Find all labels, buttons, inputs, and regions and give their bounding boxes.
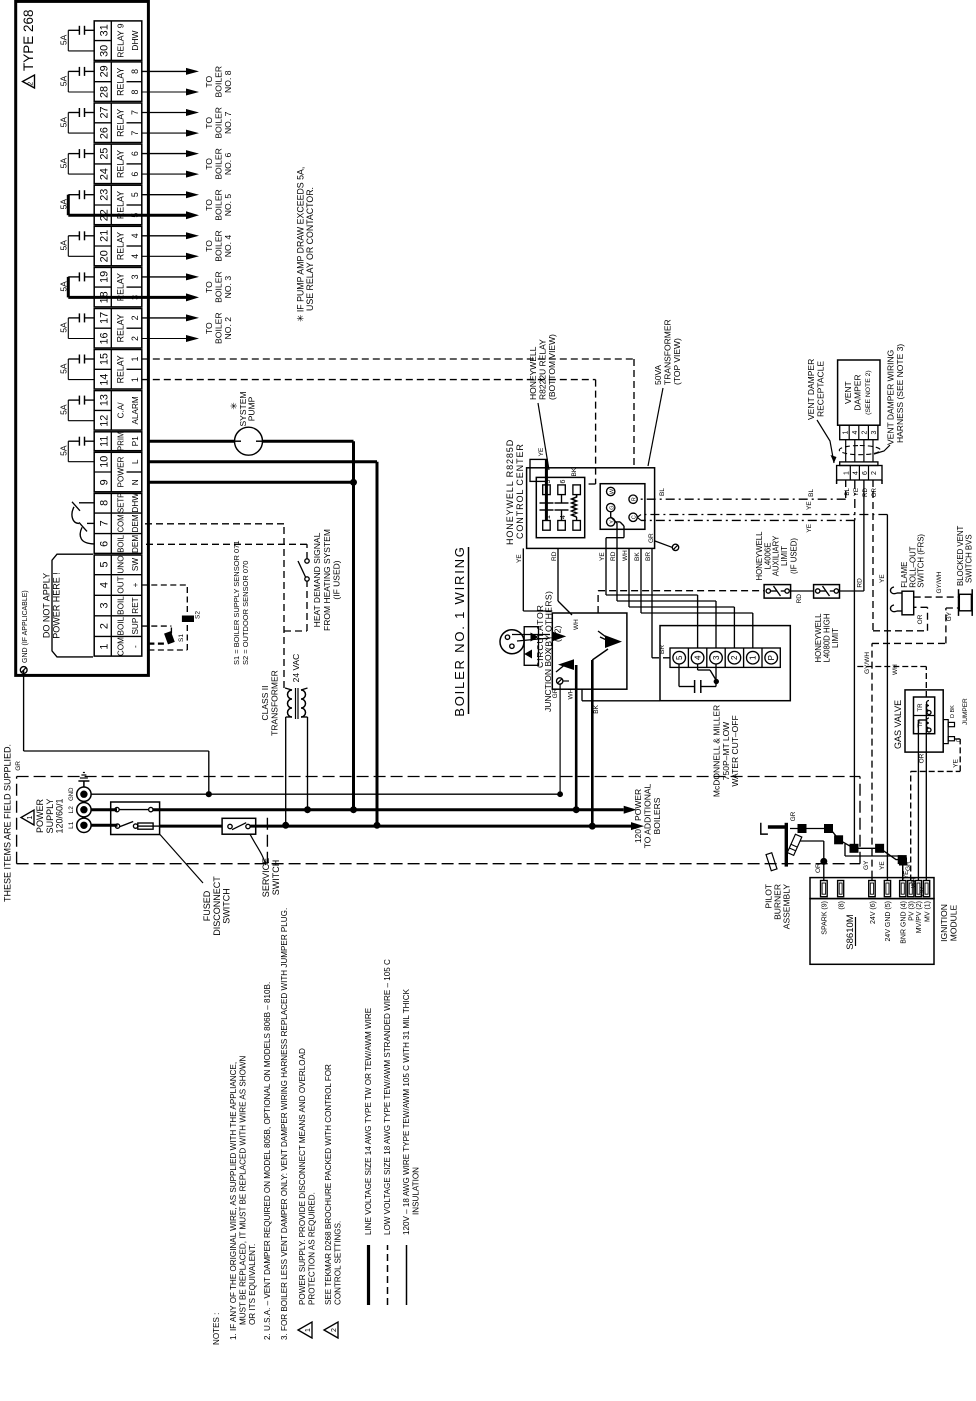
svg-text:OR ITS EQUIVALENT.: OR ITS EQUIVALENT. bbox=[248, 1244, 257, 1325]
wire N from terminal 9 bbox=[148, 481, 353, 484]
svg-text:2: 2 bbox=[27, 82, 34, 86]
svg-text:29: 29 bbox=[98, 65, 110, 77]
terminal group 16-17 bbox=[94, 309, 142, 349]
wire L1 rail continues bbox=[160, 825, 223, 828]
wire WH MV/PV to TH coil bbox=[917, 720, 919, 881]
svg-text:4: 4 bbox=[693, 655, 702, 660]
fuse 5A terminals 28-29 bbox=[59, 67, 95, 92]
svg-text:POWER: POWER bbox=[117, 456, 126, 487]
sensor S1 bbox=[165, 632, 174, 644]
svg-text:NO. 6: NO. 6 bbox=[223, 152, 233, 175]
svg-text:DO NOT APPLY: DO NOT APPLY bbox=[42, 573, 52, 638]
svg-text:DAMPER: DAMPER bbox=[853, 374, 863, 410]
Honeywell L4006E auxiliary limit bbox=[764, 585, 791, 599]
svg-text:YE: YE bbox=[538, 447, 545, 456]
wire dashed into aux limit bbox=[597, 591, 599, 613]
svg-text:COM: COM bbox=[117, 637, 126, 656]
power supply L1 terminal bbox=[77, 818, 91, 832]
module slot PV (3) bbox=[908, 881, 914, 897]
wire 24VAC tap to heat demand switch bbox=[284, 630, 307, 632]
wire L1 rail bbox=[91, 824, 117, 827]
svg-text:TO: TO bbox=[204, 240, 214, 252]
svg-text:RD: RD bbox=[862, 487, 869, 496]
svg-text:(BOTTOM VIEW): (BOTTOM VIEW) bbox=[547, 334, 557, 400]
pilot burner assembly bbox=[785, 823, 788, 867]
svg-text:TO: TO bbox=[204, 117, 214, 129]
svg-text:RD: RD bbox=[551, 551, 558, 561]
power supply L2 terminal bbox=[77, 803, 91, 817]
svg-text:BNR GND (4): BNR GND (4) bbox=[901, 901, 908, 944]
terminal group 26-27 bbox=[94, 103, 142, 143]
svg-text:7: 7 bbox=[130, 110, 140, 115]
svg-text:GND (IF APPLICABLE): GND (IF APPLICABLE) bbox=[22, 590, 29, 663]
svg-text:YE: YE bbox=[599, 552, 606, 561]
svg-text:31: 31 bbox=[98, 24, 110, 36]
svg-text:TO ADDITIONAL: TO ADDITIONAL bbox=[643, 783, 653, 848]
svg-text:(IF USED): (IF USED) bbox=[790, 538, 799, 574]
wire RD high limit to receptacle 6 bbox=[840, 590, 864, 592]
svg-text:RELAY: RELAY bbox=[116, 314, 126, 342]
wire to boiler no. 2 (terminal 16) bbox=[142, 338, 186, 340]
fuse 5A terminals 10-11 bbox=[59, 437, 95, 462]
svg-text:8: 8 bbox=[130, 69, 140, 74]
svg-text:SWITCH (FRS): SWITCH (FRS) bbox=[917, 534, 926, 588]
svg-text:NO. 7: NO. 7 bbox=[223, 111, 233, 134]
fuse 5A terminals 16-17 bbox=[59, 313, 95, 338]
svg-text:ALARM: ALARM bbox=[131, 396, 140, 424]
note triangle 2 bbox=[324, 1322, 338, 1338]
R8222U coil bbox=[576, 517, 578, 521]
note triangle 1 bbox=[298, 1322, 312, 1338]
svg-text:21: 21 bbox=[98, 230, 110, 242]
svg-text:3. FOR BOILER LESS VENT DAMPER: 3. FOR BOILER LESS VENT DAMPER ONLY: VEN… bbox=[280, 908, 289, 1340]
R8222U terminal (coil left) bbox=[573, 521, 581, 531]
fuse 5A terminals 22-23 bbox=[59, 190, 95, 215]
svg-text:OR: OR bbox=[917, 614, 924, 624]
svg-text:PV (3): PV (3) bbox=[909, 901, 916, 921]
svg-text:27: 27 bbox=[98, 106, 110, 118]
svg-text:5A: 5A bbox=[59, 281, 69, 292]
heat demand switch bbox=[305, 577, 309, 581]
svg-text:BOILER: BOILER bbox=[214, 107, 224, 139]
svg-text:BOILER: BOILER bbox=[214, 189, 224, 221]
jumper terminal 6 to 7 with break bbox=[80, 527, 94, 544]
svg-text:GAS VALVE: GAS VALVE bbox=[893, 700, 903, 749]
junction box bbox=[552, 613, 627, 689]
svg-text:YE: YE bbox=[903, 871, 910, 879]
wire GND rail bbox=[91, 793, 560, 795]
svg-text:YE: YE bbox=[806, 501, 813, 510]
water cutoff terminal P bbox=[761, 648, 763, 667]
svg-text:+: + bbox=[131, 582, 140, 587]
wire to boiler no. 7 (terminal 26) bbox=[142, 132, 186, 134]
svg-text:NO. 4: NO. 4 bbox=[223, 235, 233, 258]
water cutoff terminal 3 bbox=[706, 648, 708, 667]
jumper terminal 7 to 8 with break bbox=[72, 507, 79, 524]
Honeywell R8285D control center box bbox=[527, 468, 655, 549]
svg-text:HEAT DEMAND SIGNAL: HEAT DEMAND SIGNAL bbox=[312, 532, 322, 627]
sensor S2 bbox=[182, 616, 193, 622]
svg-text:3: 3 bbox=[98, 602, 110, 608]
svg-text:RET: RET bbox=[131, 597, 140, 613]
bracket DO NOT APPLY POWER HERE over terminals 1-5 bbox=[52, 554, 93, 657]
svg-text:5: 5 bbox=[98, 561, 110, 567]
water cutoff terminal row bbox=[670, 648, 780, 667]
svg-text:CLASS II: CLASS II bbox=[260, 686, 270, 721]
flame roll-out switch FRS bbox=[902, 591, 914, 615]
terminal group 1-5 bbox=[94, 555, 142, 656]
receptacle terminal 2 bbox=[868, 466, 870, 481]
wire L from terminal 10 bbox=[148, 460, 377, 463]
svg-text:VENT: VENT bbox=[843, 381, 853, 404]
svg-text:3: 3 bbox=[871, 430, 878, 434]
svg-text:YE: YE bbox=[879, 861, 886, 870]
svg-text:4: 4 bbox=[130, 254, 140, 259]
svg-text:RD: RD bbox=[856, 578, 863, 588]
svg-text:RELAY: RELAY bbox=[116, 109, 126, 137]
svg-text:1: 1 bbox=[27, 815, 34, 819]
fuse 5A terminals 26-27 bbox=[59, 108, 95, 133]
terminal group 14-15 bbox=[94, 350, 142, 390]
svg-text:20: 20 bbox=[98, 250, 110, 262]
svg-text:16: 16 bbox=[98, 332, 110, 344]
wire YE 24V GND to transformer C bbox=[886, 515, 888, 881]
svg-text:120V – 18 AWG WIRE TYPE TEW/AW: 120V – 18 AWG WIRE TYPE TEW/AWM 105 C WI… bbox=[402, 988, 411, 1235]
wire to boiler no. 5 (terminal 23) bbox=[142, 194, 186, 196]
svg-text:SETP: SETP bbox=[117, 493, 126, 513]
svg-text:(8): (8) bbox=[839, 901, 846, 910]
svg-text:BL: BL bbox=[808, 488, 815, 496]
svg-text:LIMIT: LIMIT bbox=[780, 546, 789, 566]
GR screw at control center bbox=[672, 544, 678, 550]
ignition module box bbox=[810, 899, 934, 965]
junction box GR screw bbox=[557, 678, 563, 684]
svg-text:WH: WH bbox=[573, 619, 580, 630]
svg-text:1: 1 bbox=[130, 356, 140, 361]
wire to boiler no. 3 (terminal 19) bbox=[142, 276, 186, 278]
svg-text:L1: L1 bbox=[68, 821, 75, 829]
svg-text:5A: 5A bbox=[59, 445, 69, 456]
svg-text:6: 6 bbox=[560, 480, 567, 484]
wire GY/WH FRS to BVS bbox=[914, 596, 960, 598]
svg-text:10: 10 bbox=[98, 456, 110, 468]
field supplied dashed boundary bbox=[16, 777, 18, 864]
svg-text:TR: TR bbox=[917, 703, 924, 712]
svg-text:1: 1 bbox=[98, 644, 110, 650]
bundle arrow up bbox=[558, 659, 574, 670]
wire YE transformer C to ignition module bbox=[641, 514, 887, 516]
wire sensor dashed terminal 4 bbox=[142, 584, 188, 586]
wire OR spark to pilot bbox=[823, 841, 825, 881]
wire to boiler no. 4 (terminal 20) bbox=[142, 255, 186, 257]
svg-text:WH: WH bbox=[622, 550, 629, 561]
receptacle terminal 4 bbox=[849, 466, 851, 481]
svg-text:2: 2 bbox=[130, 315, 140, 320]
svg-text:BOIL: BOIL bbox=[117, 534, 126, 552]
svg-text:NOTES :: NOTES : bbox=[212, 1313, 221, 1345]
svg-text:WH: WH bbox=[911, 878, 918, 888]
svg-text:GY/WH: GY/WH bbox=[864, 652, 871, 674]
gas valve inner box bbox=[914, 697, 935, 734]
svg-text:2: 2 bbox=[98, 623, 110, 629]
YE heavy wire into control center bbox=[545, 459, 548, 520]
label SERVICE SWITCH bbox=[250, 834, 266, 865]
svg-text:GR: GR bbox=[648, 533, 655, 543]
svg-text:JUMPER: JUMPER bbox=[962, 698, 969, 725]
vent damper receptacle bbox=[837, 466, 882, 481]
svg-text:RELAY: RELAY bbox=[116, 355, 126, 383]
svg-text:5A: 5A bbox=[59, 363, 69, 374]
vent damper box bbox=[838, 360, 880, 425]
water cutoff terminal 5 bbox=[673, 651, 686, 664]
svg-text:PRIM: PRIM bbox=[117, 431, 126, 451]
svg-text:OR: OR bbox=[815, 863, 822, 873]
svg-text:2: 2 bbox=[730, 655, 739, 660]
svg-text:YE: YE bbox=[516, 554, 523, 563]
module slot MV/PV (2) bbox=[915, 881, 921, 897]
terminal group 20-21 bbox=[94, 226, 142, 266]
vent damper terminal strip bbox=[840, 425, 878, 440]
svg-text:24: 24 bbox=[98, 168, 110, 180]
pilot spark OR wire with bead bbox=[800, 840, 824, 842]
svg-text:7: 7 bbox=[98, 520, 110, 526]
water cutoff terminal 4 bbox=[687, 648, 689, 667]
wire BR to water cutoff terminal 5 bbox=[652, 657, 670, 659]
wire to boiler no. 6 (terminal 24) bbox=[142, 173, 186, 175]
svg-text:UNO: UNO bbox=[117, 555, 126, 573]
svg-text:RELAY: RELAY bbox=[116, 232, 126, 260]
transformer terminal G bbox=[607, 503, 615, 511]
svg-text:6: 6 bbox=[130, 151, 140, 156]
wire GR BNR GND to pilot bbox=[902, 856, 904, 881]
svg-text:IGNITION: IGNITION bbox=[939, 904, 949, 942]
wire sensor S1 loop bbox=[142, 625, 172, 627]
svg-text:BOILER: BOILER bbox=[214, 271, 224, 303]
svg-text:GY: GY bbox=[863, 860, 870, 870]
svg-text:23: 23 bbox=[98, 189, 110, 201]
wire BK from L1 rail to junction box bbox=[591, 660, 594, 826]
svg-text:RELAY 9: RELAY 9 bbox=[116, 23, 126, 57]
svg-text:1: 1 bbox=[130, 377, 140, 382]
R8222U terminal 3 bbox=[543, 485, 551, 495]
wire RD to junction bundle bbox=[557, 548, 559, 601]
wire BK to water cutoff terminal 1 bbox=[640, 548, 642, 613]
svg-text:✳ IF PUMP AMP DRAW EXCEEDS 5A,: ✳ IF PUMP AMP DRAW EXCEEDS 5A, bbox=[296, 167, 306, 322]
svg-text:1: 1 bbox=[842, 430, 849, 434]
module slot (8) bbox=[838, 881, 844, 897]
svg-text:(SEE NOTE 2): (SEE NOTE 2) bbox=[865, 370, 872, 415]
wire RD to water cutoff terminal 3 bbox=[611, 517, 617, 523]
svg-text:OR: OR bbox=[919, 886, 926, 896]
Honeywell L4080D high limit bbox=[814, 585, 840, 599]
svg-text:8: 8 bbox=[98, 500, 110, 506]
svg-text:D BK: D BK bbox=[950, 705, 956, 718]
terminal group 30-31 bbox=[94, 21, 142, 61]
svg-text:VENT DAMPER WIRING: VENT DAMPER WIRING bbox=[886, 350, 896, 445]
water cutoff terminal 1 bbox=[743, 648, 745, 667]
svg-text:YE: YE bbox=[853, 488, 860, 496]
svg-text:C.A/: C.A/ bbox=[117, 402, 126, 419]
svg-text:PROTECTION AS REQUIRED.: PROTECTION AS REQUIRED. bbox=[308, 1192, 317, 1305]
svg-text:DEM: DEM bbox=[131, 535, 140, 553]
legend line voltage bbox=[367, 1245, 370, 1305]
wire to boiler no. 8 (terminal 28) bbox=[142, 91, 186, 93]
svg-text:6: 6 bbox=[98, 541, 110, 547]
R8222U terminal 6 bbox=[558, 485, 566, 495]
svg-text:4: 4 bbox=[853, 471, 860, 475]
terminal group 22-23 bbox=[94, 185, 142, 225]
svg-text:OUT: OUT bbox=[117, 576, 126, 593]
gas valve TR coil bbox=[927, 711, 931, 715]
terminal group 11-11 bbox=[94, 432, 142, 451]
svg-text:P: P bbox=[767, 655, 776, 660]
blocked vent switch BVS bbox=[959, 594, 971, 611]
terminal group 24-25 bbox=[94, 144, 142, 184]
wire YE receptacle to transformer C bbox=[854, 480, 856, 520]
svg-text:USE RELAY OR CONTACTOR.: USE RELAY OR CONTACTOR. bbox=[305, 187, 315, 311]
transformer Y G leads bbox=[615, 521, 620, 523]
svg-text:24V (6): 24V (6) bbox=[870, 901, 877, 924]
svg-text:9: 9 bbox=[98, 479, 110, 485]
svg-text:R8222U RELAY: R8222U RELAY bbox=[538, 339, 548, 400]
svg-text:NO. 3: NO. 3 bbox=[223, 276, 233, 299]
circulator flow arrows bbox=[524, 650, 532, 659]
bundle arrow down bbox=[605, 635, 622, 648]
svg-text:2: 2 bbox=[331, 1328, 338, 1332]
svg-text:TO: TO bbox=[204, 281, 214, 293]
svg-text:SWITCH: SWITCH bbox=[222, 888, 232, 924]
R8222U contact 1-3 bbox=[545, 510, 547, 521]
wire GY module to BVS bbox=[871, 643, 873, 877]
svg-text:L2: L2 bbox=[68, 806, 75, 814]
svg-text:CONTROL SETTINGS.: CONTROL SETTINGS. bbox=[334, 1221, 343, 1305]
water cutoff internal switch bbox=[697, 664, 699, 670]
wire to boiler no. 8 (terminal 29) bbox=[142, 70, 186, 72]
warning triangle 1 bbox=[21, 810, 34, 825]
svg-text:MV/PV (2): MV/PV (2) bbox=[916, 901, 923, 933]
module slot SPARK (9) bbox=[821, 881, 828, 897]
gas valve outer box bbox=[905, 690, 943, 752]
gas valve jumper bbox=[943, 720, 948, 744]
heavy wire through terminal 18 bbox=[94, 296, 142, 299]
class II transformer bbox=[288, 688, 306, 719]
svg-text:HONEYWELL: HONEYWELL bbox=[528, 346, 538, 400]
svg-text:INSULATION: INSULATION bbox=[412, 1167, 421, 1215]
svg-text:GR: GR bbox=[790, 811, 797, 821]
transformer terminal R bbox=[629, 495, 637, 503]
water cutoff terminal 2 bbox=[724, 648, 726, 667]
svg-text:TO: TO bbox=[204, 322, 214, 334]
svg-text:120V POWER: 120V POWER bbox=[633, 789, 643, 843]
svg-text:SEE TEKMAR D268 BROCHURE PACKE: SEE TEKMAR D268 BROCHURE PACKED WITH CON… bbox=[324, 1064, 333, 1305]
module slot 24V GND (5) bbox=[884, 881, 890, 897]
wire BL receptacle to transformer R bbox=[845, 480, 847, 499]
wire to boiler no. 2 (terminal 17) bbox=[142, 317, 186, 319]
svg-text:RELAY: RELAY bbox=[116, 67, 126, 95]
svg-text:S2: S2 bbox=[195, 611, 202, 619]
svg-text:3: 3 bbox=[130, 274, 140, 279]
svg-text:5A: 5A bbox=[59, 34, 69, 45]
svg-text:BR: BR bbox=[645, 552, 652, 561]
service switch bbox=[222, 818, 256, 834]
svg-text:CONTROL CENTER: CONTROL CENTER bbox=[515, 443, 525, 539]
svg-text:2. U.S.A. – VENT DAMPER REQUIR: 2. U.S.A. – VENT DAMPER REQUIRED ON MODE… bbox=[263, 982, 272, 1340]
wire sensor dashed bottom bbox=[186, 585, 188, 650]
wire OR MV to TR coil bbox=[925, 704, 927, 881]
terminal group 6-8 bbox=[94, 493, 142, 553]
arrows 120V POWER TO ADDITIONAL BOILERS bbox=[624, 806, 637, 814]
svg-text:LOW VOLTAGE SIZE 18 AWG TYPE T: LOW VOLTAGE SIZE 18 AWG TYPE TEW/AWM STR… bbox=[383, 959, 392, 1235]
wire sensor dashed terminal 1 bbox=[148, 649, 187, 651]
wire WH from N rail to junction box bbox=[575, 665, 578, 810]
fused disconnect switch bbox=[111, 802, 160, 835]
control box TYPE 268 outline bbox=[16, 1, 149, 675]
wire relay 1 terminal 14 (dashed) bbox=[142, 379, 596, 381]
wire transformer primary to N bbox=[307, 717, 309, 810]
wire to boiler no. 5 (terminal 22) bbox=[142, 214, 186, 217]
wire heat demand to terminal 6 dashed bbox=[306, 544, 308, 559]
svg-text:DISCONNECT: DISCONNECT bbox=[212, 876, 222, 936]
fuse 5A terminals 24-25 bbox=[59, 149, 95, 174]
svg-text:14: 14 bbox=[98, 374, 110, 386]
svg-text:5: 5 bbox=[130, 192, 140, 197]
svg-text:2: 2 bbox=[871, 471, 878, 475]
svg-text:GR: GR bbox=[15, 761, 22, 771]
svg-text:ASSEMBLY: ASSEMBLY bbox=[782, 884, 792, 930]
ignition module terminal band bbox=[810, 878, 934, 899]
gas valve TH coil bbox=[927, 728, 931, 732]
svg-text:NO. 5: NO. 5 bbox=[223, 194, 233, 217]
receptacle terminal 6 bbox=[858, 466, 860, 481]
svg-text:7: 7 bbox=[130, 131, 140, 136]
svg-text:17: 17 bbox=[98, 312, 110, 324]
wire relay 1 terminal 15 (dashed) bbox=[142, 358, 634, 360]
Honeywell R8222U relay box bbox=[536, 477, 584, 537]
svg-text:TO: TO bbox=[204, 199, 214, 211]
harness ellipse bbox=[839, 445, 880, 454]
svg-text:TRANSFORMER: TRANSFORMER bbox=[270, 670, 280, 736]
svg-text:1. IF ANY OF THE ORIGINAL WIRE: 1. IF ANY OF THE ORIGINAL WIRE, AS SUPPL… bbox=[229, 1062, 238, 1340]
svg-text:26: 26 bbox=[98, 127, 110, 139]
wire to boiler no. 6 (terminal 25) bbox=[142, 153, 186, 155]
svg-text:15: 15 bbox=[98, 353, 110, 365]
terminal group 28-29 bbox=[94, 62, 142, 102]
svg-text:RECEPTACLE: RECEPTACLE bbox=[816, 361, 826, 417]
svg-text:BOILER: BOILER bbox=[214, 148, 224, 180]
svg-text:MV (1): MV (1) bbox=[924, 901, 931, 922]
bundle fan lines bbox=[592, 649, 608, 660]
legend 120V bbox=[406, 1245, 408, 1305]
svg-text:5A: 5A bbox=[59, 75, 69, 86]
wire junction to water cutoff bbox=[581, 689, 583, 701]
svg-text:12: 12 bbox=[98, 415, 110, 427]
svg-text:POWER HERE !: POWER HERE ! bbox=[52, 572, 62, 639]
svg-text:1: 1 bbox=[305, 1328, 312, 1332]
wire WH to water cutoff terminal 2 bbox=[628, 548, 630, 607]
wire GY 24V bbox=[871, 878, 873, 881]
wire YE to water cutoff terminal 4 bbox=[623, 526, 625, 538]
svg-text:24 VAC: 24 VAC bbox=[291, 654, 301, 683]
svg-text:POWER SUPPLY. PROVIDE DISCONNE: POWER SUPPLY. PROVIDE DISCONNECT MEANS A… bbox=[298, 1048, 307, 1305]
svg-text:MODULE: MODULE bbox=[949, 904, 959, 941]
svg-text:FROM HEATING SYSTEM: FROM HEATING SYSTEM bbox=[322, 529, 332, 631]
fuse in disconnect bbox=[138, 823, 153, 829]
svg-text:SW: SW bbox=[131, 558, 140, 571]
svg-text:S1 = BOILER SUPPLY SENSOR 071: S1 = BOILER SUPPLY SENSOR 071 bbox=[232, 540, 241, 665]
svg-text:DHW: DHW bbox=[131, 493, 140, 513]
svg-text:R: R bbox=[632, 497, 638, 501]
50VA transformer box bbox=[600, 484, 645, 530]
